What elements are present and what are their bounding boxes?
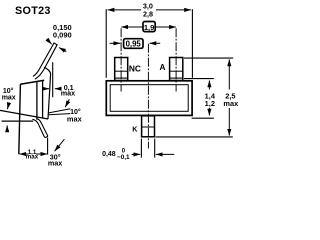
svg-text:SOT23: SOT23 xyxy=(15,5,51,17)
svg-text:−0,1: −0,1 xyxy=(117,154,130,161)
svg-text:1,9: 1,9 xyxy=(144,23,155,32)
svg-text:NC: NC xyxy=(129,64,141,74)
svg-text:max: max xyxy=(26,154,39,161)
svg-text:0,48: 0,48 xyxy=(102,151,116,158)
svg-text:max: max xyxy=(2,95,16,102)
svg-text:max: max xyxy=(223,99,239,108)
svg-text:K: K xyxy=(132,124,138,133)
svg-text:1,2: 1,2 xyxy=(205,99,215,108)
svg-text:max: max xyxy=(61,88,75,97)
svg-text:0,95: 0,95 xyxy=(126,40,142,49)
svg-text:max: max xyxy=(48,159,62,168)
svg-text:A: A xyxy=(160,63,166,72)
svg-text:0,090: 0,090 xyxy=(53,30,72,39)
svg-text:2,8: 2,8 xyxy=(143,10,153,19)
svg-text:max: max xyxy=(67,114,83,123)
